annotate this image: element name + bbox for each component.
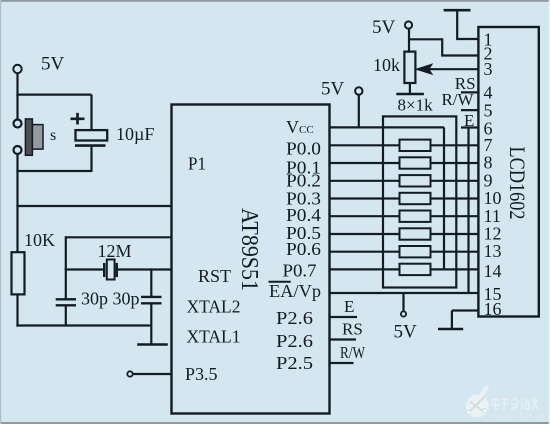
display U2 LCD1602 body — [478, 27, 538, 317]
svg-text:XTAL1: XTAL1 — [187, 327, 241, 347]
svg-text:3: 3 — [484, 59, 493, 79]
node P3.5 terminal — [127, 371, 172, 376]
ground (LCD pin1) — [444, 10, 471, 40]
svg-text:12M: 12M — [98, 241, 132, 261]
wire left rail down to switch — [16, 95, 18, 120]
svg-text:5V: 5V — [394, 322, 418, 343]
wire P2.6 stub (RS) — [330, 338, 357, 340]
svg-text:13: 13 — [484, 241, 502, 261]
wire P0.4 row — [330, 215, 479, 217]
resistor RN1b — [400, 157, 431, 168]
wire P2.6 stub (E) — [330, 316, 358, 318]
svg-text:P2.6: P2.6 — [276, 308, 313, 328]
wire P0.3 row — [330, 197, 479, 199]
resistor R1 10K — [12, 230, 56, 294]
svg-text:RST: RST — [198, 266, 231, 286]
svg-text:5V: 5V — [41, 54, 65, 75]
wire reset bottom horizontal — [16, 170, 91, 172]
svg-text:10µF: 10µF — [116, 124, 154, 144]
svg-text:30p 30p: 30p 30p — [81, 289, 140, 309]
wire P0.1 row — [330, 162, 479, 164]
node 5V (LCD backlight) — [394, 293, 418, 343]
wire crystal left vertical — [65, 236, 67, 298]
svg-text:RS: RS — [342, 320, 363, 339]
wire EA/Vp to LCD pin15 and 5V — [330, 292, 479, 294]
wire crystal mid rail to chip — [65, 268, 105, 270]
wire P0.6 row — [330, 251, 479, 253]
svg-text:P0.7: P0.7 — [283, 261, 317, 281]
pin label EA/Vp with overline on EA — [269, 281, 322, 301]
ground (potentiometer) — [396, 93, 424, 96]
resistor RN1g — [400, 246, 431, 257]
wire top horizontal to capacitor branch — [16, 93, 91, 95]
wire LCD pin2 to 5V node — [409, 39, 478, 55]
wire 10K bottom to ground rail — [16, 294, 18, 326]
wire LCD pin16 to ground — [452, 311, 478, 330]
wire P2.5 stub (R/W) — [330, 362, 354, 364]
resistor RN1f — [400, 228, 431, 239]
resistor RN1a — [400, 140, 431, 151]
svg-text:P0.0: P0.0 — [286, 138, 321, 158]
watermark text 电子发烧友 (vector strokes) — [492, 398, 538, 411]
wire P0.0 row — [330, 144, 479, 146]
watermark logo — [466, 384, 489, 418]
svg-text:P0.2: P0.2 — [286, 170, 321, 190]
svg-text:P2.6: P2.6 — [276, 331, 313, 351]
svg-text:R/W: R/W — [442, 90, 475, 109]
wire P0.2 row — [330, 180, 479, 182]
pin numbers 1-16 — [484, 30, 502, 320]
svg-text:P3.5: P3.5 — [185, 364, 218, 384]
node 5V (chip supply) — [321, 79, 362, 129]
op IC U1 AT89S51 body — [172, 105, 330, 414]
crystal Y1 12M — [98, 241, 132, 280]
wire RST net to chip — [16, 205, 172, 207]
resistor RN1c — [400, 175, 431, 186]
wire LCD pin6 stub — [461, 126, 478, 128]
svg-text:10k: 10k — [373, 55, 400, 75]
wire LCD pin1 — [457, 38, 478, 40]
potentiometer RP1 10k — [372, 17, 415, 93]
wire switch bottom to lower rail — [16, 154, 18, 172]
svg-text:5: 5 — [484, 101, 493, 121]
resistor RN1d — [400, 193, 431, 204]
svg-text:EA/Vp: EA/Vp — [269, 281, 321, 301]
svg-text:P1: P1 — [188, 154, 206, 174]
wire resistor common rail — [443, 127, 445, 269]
svg-text:www.elecfans.com: www.elecfans.com — [490, 411, 547, 420]
svg-text:5V: 5V — [321, 79, 345, 100]
ground (LCD pin16) — [438, 328, 463, 331]
capacitor C3 30p — [141, 268, 162, 344]
wire LCD pin4 stub — [461, 91, 478, 93]
svg-text:R/W: R/W — [340, 343, 366, 362]
pin labels P0.0-P0.7 — [283, 138, 322, 280]
wire left rail to RST junction and 10K — [16, 171, 18, 253]
svg-text:s: s — [50, 127, 56, 144]
wire LCD pin5 stub — [461, 109, 478, 111]
wire E vertical (LCD pin6) — [467, 128, 469, 294]
resistor RN1e — [400, 211, 431, 222]
wire P0.7 row — [330, 268, 479, 270]
resistor network RN1 box — [383, 116, 456, 287]
svg-text:E: E — [344, 297, 354, 316]
svg-text:8×1k: 8×1k — [398, 96, 434, 115]
svg-text:14: 14 — [484, 261, 502, 281]
resistor RN1h — [400, 264, 431, 275]
svg-text:P2.5: P2.5 — [276, 353, 313, 373]
wire crystal top rail to chip — [66, 236, 172, 238]
wire wiper arrow to LCD pin3 — [417, 65, 479, 74]
capacitor C1 10uF — [71, 95, 155, 172]
svg-text:LCD1602: LCD1602 — [505, 147, 530, 220]
svg-text:AT89S51: AT89S51 — [236, 208, 262, 291]
wire P0.5 row — [330, 233, 479, 235]
svg-text:XTAL2: XTAL2 — [187, 297, 241, 317]
wire bottom ground rail — [16, 324, 151, 326]
node 5V (reset circuit supply) — [13, 54, 64, 75]
capacitor C2 30p — [56, 299, 76, 326]
svg-text:5V: 5V — [372, 17, 396, 38]
ground (crystal circuit) — [137, 343, 168, 346]
wire 5V terminal down to junction — [16, 73, 18, 96]
svg-text:10K: 10K — [24, 230, 55, 250]
wire Vcc to 5V and resistor commons — [330, 126, 445, 128]
svg-text:16: 16 — [484, 299, 502, 319]
svg-text:P0.6: P0.6 — [286, 239, 321, 259]
switch S — [14, 119, 57, 155]
